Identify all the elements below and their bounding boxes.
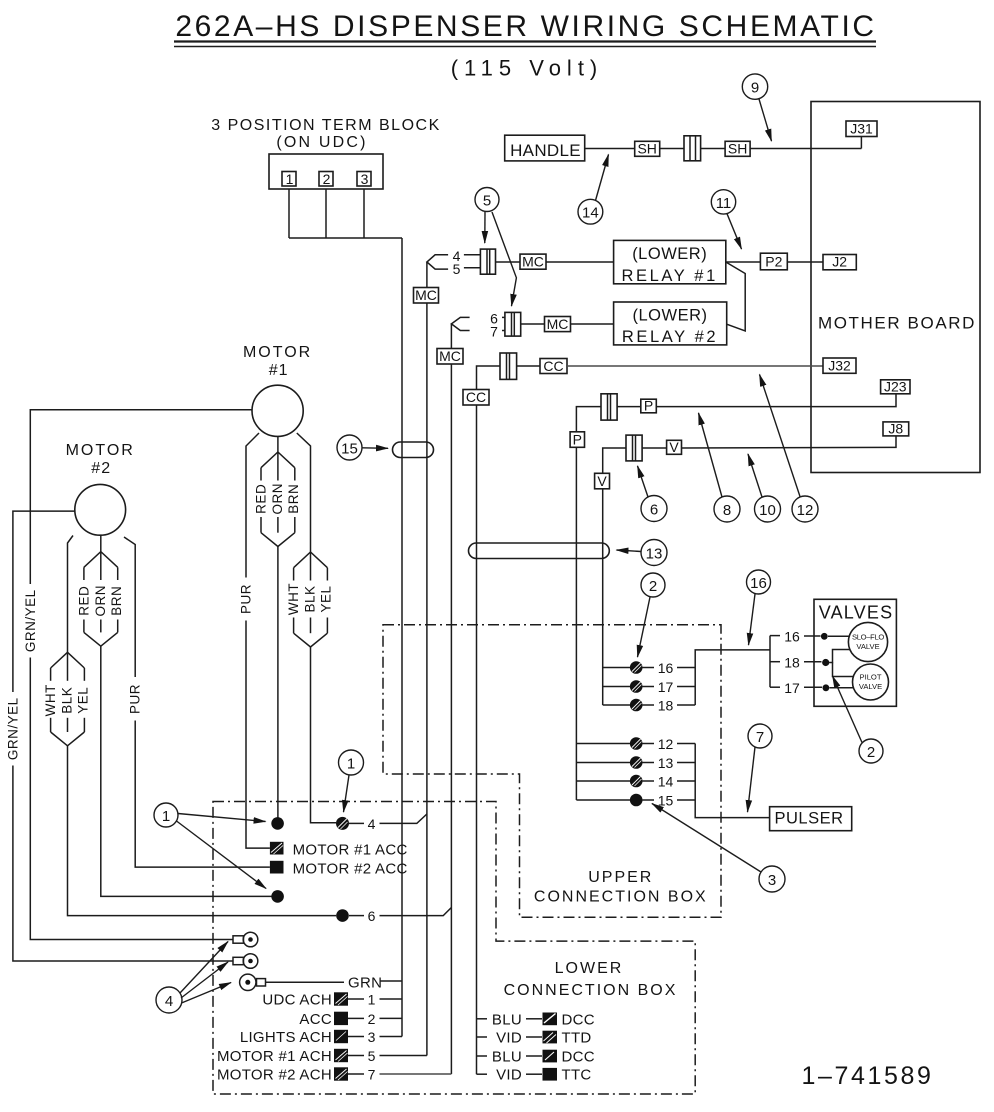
wire connector to P label xyxy=(617,406,641,408)
J8 box xyxy=(883,421,909,437)
svg-text:BLK: BLK xyxy=(303,585,318,612)
svg-text:MOTOR: MOTOR xyxy=(66,442,135,459)
motor 2 xyxy=(66,442,135,535)
3 position term block label xyxy=(211,117,440,151)
wire P2 to J2 xyxy=(787,261,823,263)
wire P bus stubs rows 12-15 xyxy=(576,744,630,801)
svg-text:P: P xyxy=(573,431,582,447)
connector V xyxy=(626,435,642,461)
row MOTOR #2 ACH 7 xyxy=(217,1067,451,1084)
wire 17 to pilot xyxy=(804,686,822,688)
svg-text:MOTOR: MOTOR xyxy=(243,344,312,361)
svg-text:7: 7 xyxy=(368,1067,376,1083)
svg-text:J8: J8 xyxy=(888,421,903,437)
wire connector to MC2 xyxy=(521,323,545,325)
svg-text:2: 2 xyxy=(867,744,875,761)
callout 7 xyxy=(748,724,773,812)
svg-text:PUR: PUR xyxy=(128,684,143,714)
connector handle xyxy=(684,136,701,161)
svg-text:2: 2 xyxy=(649,578,657,595)
svg-text:P: P xyxy=(644,398,653,414)
MC box on bus 451 xyxy=(437,348,463,364)
row UDC ACH 1 xyxy=(262,992,402,1009)
MC box relay2 xyxy=(545,316,571,332)
svg-text:RED: RED xyxy=(76,586,91,616)
svg-text:3 POSITION TERM BLOCK: 3 POSITION TERM BLOCK xyxy=(211,117,440,134)
svg-text:TTC: TTC xyxy=(562,1067,592,1084)
wire handle to motherboard xyxy=(584,148,634,150)
svg-text:2: 2 xyxy=(368,1011,376,1027)
svg-text:P2: P2 xyxy=(765,254,782,270)
svg-text:SH: SH xyxy=(728,141,747,157)
svg-text:MOTOR #2 ACH: MOTOR #2 ACH xyxy=(217,1067,332,1084)
svg-text:J23: J23 xyxy=(884,379,907,395)
svg-text:3: 3 xyxy=(768,872,776,889)
svg-text:16: 16 xyxy=(784,629,800,645)
svg-text:5: 5 xyxy=(483,193,491,210)
wire 18 branch xyxy=(804,661,822,663)
V box right xyxy=(667,439,682,455)
callout 1 left xyxy=(154,803,266,889)
svg-text:VALVE: VALVE xyxy=(856,642,879,651)
J32 box xyxy=(823,358,856,374)
wire fan RED/ORN/BRN motor1 xyxy=(261,452,295,547)
svg-text:16: 16 xyxy=(658,660,674,676)
wire J31 drop xyxy=(860,137,862,149)
callout 3 xyxy=(652,804,785,893)
wire term bus xyxy=(289,237,402,239)
wire motor1 center lead xyxy=(277,436,279,452)
svg-text:(ON UDC): (ON UDC) xyxy=(276,134,367,151)
svg-text:3: 3 xyxy=(361,171,369,187)
svg-text:TTD: TTD xyxy=(562,1030,592,1047)
wire bus UDC net down to lower connection box xyxy=(401,238,403,1037)
svg-text:PILOT: PILOT xyxy=(860,673,882,682)
row ACC 2 xyxy=(299,1011,402,1028)
node 14 xyxy=(630,774,695,790)
P2 box xyxy=(760,253,787,270)
P box on bus 577 xyxy=(570,431,584,447)
svg-text:SH: SH xyxy=(637,141,656,157)
relay 2 box xyxy=(614,302,727,346)
pulser box xyxy=(770,807,852,831)
wire V bus stubs rows 16-18 xyxy=(603,668,630,706)
svg-text:J2: J2 xyxy=(832,254,847,270)
svg-text:MC: MC xyxy=(439,348,461,364)
relay 1 box xyxy=(614,240,726,285)
wire connector to V label xyxy=(642,447,667,449)
node valve 18 xyxy=(822,659,829,666)
wire V line xyxy=(603,448,626,705)
svg-text:12: 12 xyxy=(797,502,814,519)
wire motor1 right bus to node 4 xyxy=(311,647,337,823)
svg-text:4: 4 xyxy=(165,993,173,1010)
svg-text:5: 5 xyxy=(453,261,461,277)
svg-text:11: 11 xyxy=(716,195,732,212)
callout 11 xyxy=(711,190,741,249)
row BLU DCC 1 xyxy=(477,1011,595,1028)
svg-text:BLK: BLK xyxy=(60,687,75,714)
SH box 2 xyxy=(725,141,750,157)
svg-text:12: 12 xyxy=(658,736,674,752)
row MOTOR #1 ACH 5 xyxy=(217,1048,427,1065)
wire motor1 PUR lead xyxy=(246,433,259,578)
valve PILOT xyxy=(853,664,889,700)
callout 6 xyxy=(638,466,668,522)
svg-text:PULSER: PULSER xyxy=(774,810,843,828)
svg-text:VID: VID xyxy=(496,1030,522,1047)
node 17 xyxy=(630,679,695,695)
svg-text:6: 6 xyxy=(368,908,376,924)
wire term2 down xyxy=(325,186,327,238)
node 15 xyxy=(630,793,695,809)
svg-text:VALVE: VALVE xyxy=(859,682,882,691)
row BLU DCC 2 xyxy=(477,1049,595,1066)
callout 2 upper xyxy=(638,573,666,657)
svg-text:LIGHTS ACH: LIGHTS ACH xyxy=(240,1029,332,1046)
svg-text:18: 18 xyxy=(658,698,674,714)
callout 14 xyxy=(578,155,609,225)
valve SLO-FLO xyxy=(848,622,887,661)
wire term3 down xyxy=(363,186,365,238)
P box right xyxy=(641,398,657,414)
node 13 xyxy=(630,755,695,771)
row LIGHTS ACH 3 xyxy=(240,1029,402,1046)
J23 box xyxy=(881,379,910,395)
handle box xyxy=(505,135,585,161)
svg-text:V: V xyxy=(669,439,679,455)
wire motor1 right lead xyxy=(297,433,311,552)
svg-text:YEL: YEL xyxy=(76,687,91,714)
svg-text:262A–HS DISPENSER WIRING SCHEM: 262A–HS DISPENSER WIRING SCHEMATIC xyxy=(175,10,876,43)
svg-text:GRN: GRN xyxy=(348,975,382,992)
wire 6/7 chevron xyxy=(451,317,505,330)
connector 6/7 xyxy=(505,312,521,336)
svg-text:SLO–FLO: SLO–FLO xyxy=(852,633,884,642)
svg-text:18: 18 xyxy=(784,655,800,671)
node B motor2 xyxy=(271,890,284,903)
wire fan WHT/BLK/YEL motor1 xyxy=(294,552,328,647)
mother board xyxy=(811,102,980,473)
svg-text:15: 15 xyxy=(341,440,358,457)
callout 10 xyxy=(748,454,781,522)
svg-text:WHT: WHT xyxy=(43,684,58,716)
node 16 xyxy=(630,660,695,676)
wire MC2 to relay2 xyxy=(571,323,614,325)
node ACC2 xyxy=(270,861,408,878)
node valve 16 xyxy=(821,633,828,640)
svg-text:BRN: BRN xyxy=(109,586,124,616)
svg-text:MC: MC xyxy=(415,287,437,303)
node MC bus down from 4/5 xyxy=(426,262,428,1056)
callout 2 lower xyxy=(833,676,884,763)
valves box xyxy=(814,599,896,706)
svg-text:MOTHER BOARD: MOTHER BOARD xyxy=(818,314,976,333)
svg-text:GRN/YEL: GRN/YEL xyxy=(5,697,20,760)
row VID TTC xyxy=(477,1067,592,1084)
wire term1 down xyxy=(288,186,290,238)
svg-text:VID: VID xyxy=(496,1067,522,1084)
node valve 17 xyxy=(823,684,830,691)
svg-text:MC: MC xyxy=(547,316,569,332)
svg-text:YEL: YEL xyxy=(319,585,334,612)
wire V to J8 xyxy=(682,436,897,448)
wire relay jumper xyxy=(726,262,745,331)
cable marker 13 xyxy=(469,540,668,566)
wire motor2 center lead xyxy=(100,535,102,551)
svg-text:DCC: DCC xyxy=(562,1049,595,1066)
connector P xyxy=(601,394,617,420)
svg-text:2: 2 xyxy=(323,171,331,187)
wire valve fan xyxy=(770,636,780,688)
svg-text:5: 5 xyxy=(368,1048,376,1064)
svg-text:RELAY #1: RELAY #1 xyxy=(622,267,718,285)
svg-text:13: 13 xyxy=(658,755,674,771)
svg-text:16: 16 xyxy=(750,575,767,592)
svg-text:1–741589: 1–741589 xyxy=(801,1062,933,1090)
J2 box xyxy=(823,254,856,270)
svg-text:1: 1 xyxy=(162,808,170,825)
wire connector to CC label xyxy=(517,365,540,367)
svg-text:J31: J31 xyxy=(850,121,873,137)
wire motor2 center bus to node B xyxy=(101,646,272,896)
wire connector to MC xyxy=(496,261,521,263)
wire motor2 left bus to node 6 xyxy=(68,746,337,916)
node ACC1 xyxy=(270,842,408,859)
node 18 xyxy=(630,698,695,714)
svg-text:ORN: ORN xyxy=(270,483,285,515)
SH box 1 xyxy=(635,141,660,157)
wire P to J23 xyxy=(656,394,896,407)
3 position term block xyxy=(269,154,383,189)
svg-text:6: 6 xyxy=(650,502,658,519)
node A motor1 xyxy=(271,817,284,830)
wire motor2 WHT/BLK/YEL lead xyxy=(68,536,74,653)
MC box relay1 xyxy=(520,254,546,270)
svg-text:14: 14 xyxy=(658,774,674,790)
wire 4/5 chevron xyxy=(427,255,481,269)
wire CC line xyxy=(477,366,501,1074)
callout 12 xyxy=(760,375,819,523)
callout 5 xyxy=(475,188,516,307)
svg-text:RELAY #2: RELAY #2 xyxy=(622,328,718,346)
CC box right xyxy=(540,358,567,374)
svg-text:1: 1 xyxy=(368,992,376,1008)
svg-text:MOTOR #2 ACC: MOTOR #2 ACC xyxy=(293,861,408,878)
svg-text:DCC: DCC xyxy=(562,1011,595,1028)
node MC bus down from 6/7 xyxy=(450,324,452,1074)
wire fan RED/ORN/BRN motor2 xyxy=(84,552,118,647)
connector 4/5 xyxy=(480,249,495,274)
svg-text:(115 Volt): (115 Volt) xyxy=(451,56,604,81)
svg-text:CONNECTION BOX: CONNECTION BOX xyxy=(534,889,708,906)
wire motor1 center bus down to node A xyxy=(277,547,279,819)
svg-text:BLU: BLU xyxy=(492,1011,522,1028)
wire motor2 left lead GRN/YEL xyxy=(13,511,75,692)
svg-text:1: 1 xyxy=(286,171,294,187)
lower connection box border xyxy=(213,802,695,1095)
title xyxy=(174,10,877,81)
callout 4 xyxy=(156,942,231,1014)
wire relay1 to P2 xyxy=(726,261,761,263)
motor 1 xyxy=(243,344,312,436)
svg-text:ACC: ACC xyxy=(299,1011,332,1028)
node 12 xyxy=(630,736,695,752)
svg-text:WHT: WHT xyxy=(286,583,301,615)
ring terminal GRN xyxy=(240,974,402,991)
svg-text:MC: MC xyxy=(522,254,544,270)
connector CC xyxy=(500,353,517,379)
V box on bus 602 xyxy=(595,473,610,489)
J31 box xyxy=(846,121,877,137)
svg-text:GRN/YEL: GRN/YEL xyxy=(23,589,38,652)
svg-text:UPPER: UPPER xyxy=(588,869,653,886)
svg-text:10: 10 xyxy=(759,502,776,519)
svg-text:17: 17 xyxy=(658,679,674,695)
svg-text:15: 15 xyxy=(658,793,674,809)
wire P line xyxy=(576,407,601,800)
svg-text:J32: J32 xyxy=(828,358,851,374)
svg-text:BRN: BRN xyxy=(286,484,301,514)
wire motor2 PUR lead xyxy=(124,537,135,677)
svg-text:V: V xyxy=(597,473,607,489)
svg-text:9: 9 xyxy=(751,80,759,97)
svg-text:(LOWER): (LOWER) xyxy=(632,245,707,263)
row VID TTD xyxy=(477,1030,592,1047)
wire fan WHT/BLK/YEL motor2 xyxy=(51,652,85,746)
svg-text:LOWER: LOWER xyxy=(555,960,624,977)
upper connection box border xyxy=(383,625,721,918)
wire motor1 left lead GRN/YEL xyxy=(30,410,252,584)
svg-text:RED: RED xyxy=(254,484,269,514)
wire 16 to slo-flo xyxy=(804,635,821,637)
node 4 xyxy=(336,814,427,832)
node 6 xyxy=(336,908,451,925)
wire CC to J32 xyxy=(567,365,823,367)
callout 16 xyxy=(747,570,771,645)
ring terminal 1 xyxy=(233,932,258,947)
svg-text:14: 14 xyxy=(582,205,599,222)
svg-text:BLU: BLU xyxy=(492,1049,522,1066)
svg-text:PUR: PUR xyxy=(239,584,254,614)
svg-text:VALVES: VALVES xyxy=(819,603,894,623)
CC box on bus 477 xyxy=(463,389,489,405)
svg-text:1: 1 xyxy=(347,756,355,773)
wire 16-18 bus xyxy=(695,650,770,705)
svg-text:ORN: ORN xyxy=(93,585,108,617)
svg-text:HANDLE: HANDLE xyxy=(510,141,581,160)
wire MC to relay1 xyxy=(546,261,614,263)
svg-text:MOTOR #1 ACH: MOTOR #1 ACH xyxy=(217,1048,332,1065)
callout 1 top xyxy=(339,750,364,812)
wire 12-15 bus to pulser xyxy=(695,744,769,818)
svg-text:(LOWER): (LOWER) xyxy=(633,307,708,325)
svg-text:UDC ACH: UDC ACH xyxy=(262,992,332,1009)
callout 8 xyxy=(699,413,741,522)
svg-text:CC: CC xyxy=(466,389,486,405)
svg-text:17: 17 xyxy=(784,680,800,696)
svg-text:8: 8 xyxy=(723,502,731,519)
svg-text:MOTOR #1 ACC: MOTOR #1 ACC xyxy=(293,842,408,859)
svg-text:CONNECTION BOX: CONNECTION BOX xyxy=(504,982,678,999)
MC box on bus 427 xyxy=(414,287,439,303)
svg-text:#1: #1 xyxy=(269,362,289,379)
svg-text:4: 4 xyxy=(368,816,376,832)
svg-text:#2: #2 xyxy=(91,460,111,477)
svg-text:3: 3 xyxy=(368,1029,376,1045)
ring terminal 2 xyxy=(233,954,258,969)
svg-text:CC: CC xyxy=(543,358,563,374)
cable marker 15 xyxy=(337,435,434,460)
callout 9 xyxy=(742,74,771,141)
svg-text:13: 13 xyxy=(646,545,663,562)
svg-text:7: 7 xyxy=(756,729,764,746)
svg-text:7: 7 xyxy=(490,324,498,340)
